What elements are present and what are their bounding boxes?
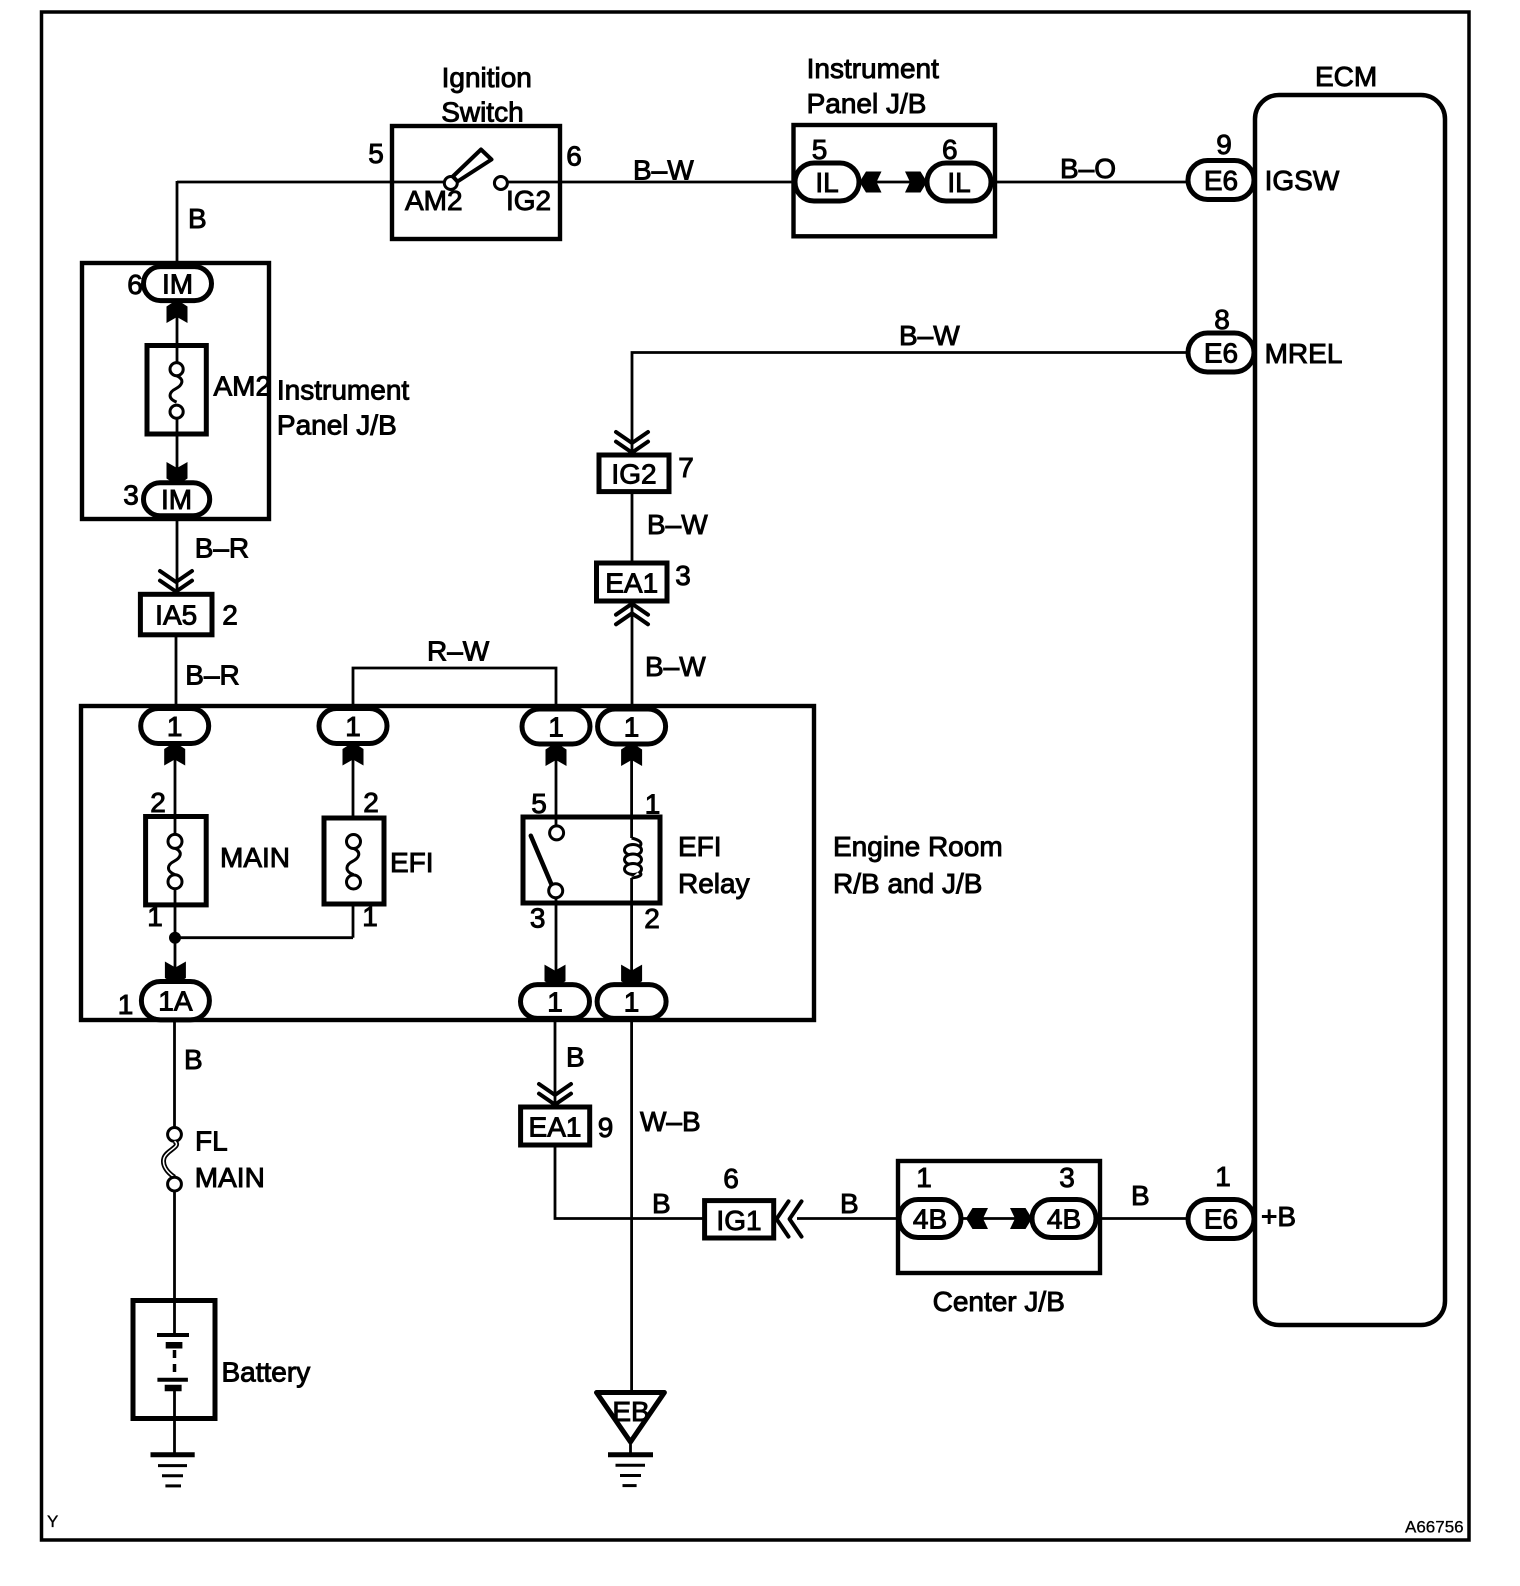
- arrow male IL left: [860, 172, 882, 193]
- ground battery: [151, 1455, 195, 1486]
- relay coil: [625, 838, 642, 878]
- svg-text:B: B: [652, 1188, 671, 1219]
- arrow male IL right: [905, 172, 927, 193]
- svg-text:6: 6: [942, 134, 958, 165]
- svg-text:1: 1: [147, 901, 163, 932]
- svg-text:B–W: B–W: [645, 651, 706, 682]
- battery plate long top: [157, 1333, 189, 1337]
- svg-text:1: 1: [362, 901, 378, 932]
- battery dashed link: [173, 1350, 177, 1376]
- svg-text:MREL: MREL: [1265, 338, 1343, 369]
- ground EB bars: [608, 1455, 653, 1486]
- chevrons into EA1 pin9: [539, 1084, 571, 1105]
- svg-text:Instrument: Instrument: [277, 374, 409, 405]
- svg-text:2: 2: [222, 600, 238, 631]
- label Ignition Switch: [441, 62, 532, 128]
- connector 4B pin1 oval: [899, 1200, 961, 1238]
- fuse MAIN box: [146, 817, 207, 905]
- oval 1 above relay pin5: [522, 709, 590, 744]
- label Instrument Panel J/B left: [277, 374, 409, 440]
- wire between 4B connectors: [961, 1217, 1032, 1220]
- ground EB triangle: [597, 1393, 665, 1442]
- bottom oval 1 right: [597, 985, 666, 1019]
- arrow male above bottom oval 1 left: [545, 965, 566, 987]
- relay contact bottom circle: [549, 884, 563, 898]
- svg-text:A66756: A66756: [1405, 1518, 1464, 1537]
- fuse AM2 element: [170, 376, 182, 402]
- svg-text:IM: IM: [162, 269, 193, 300]
- chevrons into IG1: [777, 1201, 802, 1236]
- svg-text:1: 1: [548, 712, 564, 743]
- ignition switch box: [392, 126, 560, 239]
- svg-text:9: 9: [598, 1112, 614, 1143]
- svg-text:IG2: IG2: [506, 185, 551, 216]
- connector IL pin6: [927, 163, 991, 201]
- fusible link FL MAIN top circle: [168, 1128, 182, 1142]
- svg-text:B: B: [188, 203, 207, 234]
- svg-text:5: 5: [531, 788, 547, 819]
- fuse AM2 top circle: [170, 363, 183, 376]
- fuse MAIN bottom circle: [168, 875, 182, 889]
- arrow male below oval MAIN: [164, 744, 185, 766]
- svg-text:EB: EB: [612, 1396, 649, 1427]
- svg-text:R/B and J/B: R/B and J/B: [833, 868, 982, 899]
- wire relay pin5 oval to contact: [555, 743, 558, 826]
- svg-text:MAIN: MAIN: [195, 1162, 265, 1193]
- svg-text:B: B: [840, 1188, 859, 1219]
- arrow male 4B left: [966, 1208, 988, 1229]
- svg-text:2: 2: [363, 787, 379, 818]
- connector 1A oval: [141, 982, 209, 1020]
- svg-text:6: 6: [723, 1163, 739, 1194]
- fuse EFI box: [324, 818, 384, 904]
- svg-text:1A: 1A: [158, 986, 193, 1017]
- connector box IA5: [140, 594, 212, 635]
- wire R-W EFI fuse oval to relay pin5 oval: [353, 668, 556, 710]
- wire B relay oval to EA1 9: [554, 1019, 557, 1108]
- svg-text:1: 1: [624, 712, 640, 743]
- svg-text:Y: Y: [47, 1512, 58, 1531]
- wire B-O IL to E6 IGSW: [990, 181, 1189, 184]
- svg-text:B–W: B–W: [633, 155, 694, 186]
- label EFI Relay: [678, 831, 750, 899]
- connector 4B pin3 oval: [1032, 1200, 1096, 1238]
- fuse EFI top circle: [347, 835, 361, 849]
- fuse AM2 box: [147, 346, 206, 435]
- svg-text:Panel J/B: Panel J/B: [277, 409, 397, 440]
- wire B from corner to ignition switch: [177, 181, 393, 184]
- wire relay pin2 coil to bottom oval: [630, 878, 633, 985]
- ignition switch lever: [453, 150, 492, 182]
- svg-text:1: 1: [547, 987, 563, 1018]
- wire junction to EFI fuse bottom: [175, 936, 353, 939]
- connector box IG2: [599, 455, 669, 492]
- wire B-R IM3 to IA5: [176, 516, 179, 595]
- svg-text:1: 1: [624, 987, 640, 1018]
- connector box IG1: [705, 1201, 774, 1238]
- svg-text:Engine Room: Engine Room: [833, 831, 1003, 862]
- label Engine Room R/B and J/B: [833, 831, 1003, 899]
- instrument panel J/B box left: [82, 263, 269, 519]
- svg-text:EA1: EA1: [529, 1112, 582, 1143]
- svg-text:B: B: [184, 1044, 203, 1075]
- svg-text:Relay: Relay: [678, 868, 750, 899]
- svg-text:3: 3: [530, 903, 546, 934]
- svg-text:+B: +B: [1261, 1201, 1296, 1232]
- svg-text:IG1: IG1: [716, 1205, 761, 1236]
- svg-text:2: 2: [150, 787, 166, 818]
- svg-text:B–R: B–R: [195, 532, 249, 563]
- battery box: [133, 1301, 215, 1419]
- svg-text:Center J/B: Center J/B: [933, 1286, 1065, 1317]
- svg-text:B–O: B–O: [1060, 153, 1116, 184]
- svg-text:1: 1: [916, 1162, 932, 1193]
- ECM box: [1255, 95, 1445, 1325]
- connector E6 IGSW oval: [1188, 161, 1254, 200]
- svg-text:B–W: B–W: [647, 509, 708, 540]
- connector IL pin5: [795, 163, 859, 201]
- svg-text:1: 1: [167, 711, 183, 742]
- svg-text:FL: FL: [195, 1126, 228, 1157]
- ignition switch contact IG2: [494, 177, 507, 190]
- svg-text:Instrument: Instrument: [807, 53, 939, 84]
- svg-text:IL: IL: [947, 167, 970, 198]
- chevrons into EA1 pin3: [616, 604, 648, 625]
- svg-text:9: 9: [1216, 129, 1232, 160]
- wire EFI oval to EFI fuse: [352, 743, 355, 819]
- arrow male below oval relay1: [621, 744, 642, 766]
- engine room R/B and J/B box: [81, 706, 814, 1020]
- svg-text:Ignition: Ignition: [442, 62, 532, 93]
- wire B vertical to IM6: [176, 181, 179, 267]
- svg-text:5: 5: [812, 134, 828, 165]
- connector E6 +B oval: [1188, 1200, 1254, 1239]
- wire B-R IA5 to engine room JB: [175, 635, 178, 710]
- svg-text:AM2: AM2: [405, 185, 463, 216]
- wire B-W EA1 to relay coil oval: [631, 601, 634, 710]
- wire B-W MREL to IG2 connector: [632, 353, 1189, 456]
- junction dot MAIN-EFI: [169, 932, 181, 944]
- svg-text:B–W: B–W: [899, 320, 960, 351]
- wire battery plate feed: [173, 1301, 176, 1335]
- oval 1 above EFI: [319, 709, 387, 744]
- instrument panel J/B box top: [794, 125, 996, 236]
- fuse MAIN element: [168, 848, 180, 874]
- svg-text:4B: 4B: [1047, 1204, 1081, 1235]
- chevrons into IG2 connector: [616, 432, 648, 453]
- svg-text:3: 3: [675, 560, 691, 591]
- svg-text:IL: IL: [815, 167, 838, 198]
- fuse MAIN top circle: [168, 834, 182, 848]
- wire switch internal left: [393, 181, 445, 184]
- bottom oval 1 left: [521, 985, 590, 1019]
- fuse EFI bottom circle: [347, 875, 361, 889]
- wire switch internal right: [507, 181, 560, 184]
- oval 1 above MAIN: [141, 709, 209, 744]
- battery plate long bottom: [157, 1378, 188, 1382]
- arrow male below oval relay5: [546, 744, 567, 766]
- svg-text:IA5: IA5: [155, 600, 197, 631]
- svg-text:Panel J/B: Panel J/B: [807, 88, 927, 119]
- svg-text:1: 1: [345, 711, 361, 742]
- wire MAIN fuse to 1A oval: [174, 888, 177, 985]
- fuse EFI element: [347, 848, 359, 874]
- wire B-W ignition switch to IL: [560, 181, 796, 184]
- relay contact blade: [531, 836, 552, 885]
- connector box EA1 pin3: [597, 563, 668, 601]
- svg-text:ECM: ECM: [1315, 61, 1377, 92]
- svg-text:EA1: EA1: [605, 568, 658, 599]
- svg-text:R–W: R–W: [427, 636, 490, 667]
- wire oval1 to MAIN fuse: [174, 743, 177, 835]
- svg-text:AM2: AM2: [214, 371, 272, 402]
- arrow male above bottom oval 1 right: [621, 965, 642, 987]
- svg-text:5: 5: [368, 138, 384, 169]
- svg-text:E6: E6: [1204, 338, 1238, 369]
- svg-text:8: 8: [1214, 304, 1230, 335]
- arrow male above IM3: [167, 462, 188, 484]
- battery plate short top: [166, 1342, 183, 1349]
- svg-text:6: 6: [127, 269, 143, 300]
- arrow male below IM6: [167, 301, 188, 323]
- center J/B box: [898, 1161, 1100, 1273]
- arrow male above 1A oval: [165, 962, 186, 984]
- wire between IL connectors: [858, 181, 928, 184]
- wire EFI fuse bottom drop: [352, 905, 355, 938]
- wire EB apex to ground bar: [629, 1442, 632, 1455]
- wire FL MAIN to battery: [173, 1191, 176, 1301]
- svg-text:B: B: [566, 1042, 585, 1073]
- connector IM pin3 oval: [144, 483, 210, 516]
- svg-text:3: 3: [123, 479, 139, 510]
- label FL MAIN: [195, 1126, 265, 1193]
- chevrons into IA5: [160, 571, 192, 592]
- svg-text:4B: 4B: [913, 1204, 947, 1235]
- fuse AM2 bottom circle: [170, 405, 183, 418]
- wire W-B relay oval to EB ground: [630, 1019, 633, 1393]
- wire B IG1 to center JB: [797, 1217, 900, 1220]
- wire relay pin3 to bottom oval: [555, 898, 558, 985]
- wire fuse AM2 to IM3: [176, 418, 179, 483]
- svg-text:6: 6: [566, 141, 582, 172]
- svg-text:IGSW: IGSW: [1265, 165, 1340, 196]
- fusible link FL MAIN bottom circle: [168, 1177, 182, 1191]
- wire IM6 to fuse AM2: [176, 300, 179, 363]
- ignition switch contact AM2: [444, 177, 457, 190]
- arrow male below oval EFI: [343, 744, 364, 766]
- wire relay pin1 oval to coil: [630, 743, 633, 838]
- fusible link FL MAIN element: [163, 1141, 176, 1177]
- connector IM pin6 oval: [144, 267, 212, 301]
- svg-text:B: B: [1131, 1180, 1150, 1211]
- wire B 1A oval to FL MAIN: [173, 1019, 176, 1128]
- relay contact top circle: [550, 826, 564, 840]
- svg-text:E6: E6: [1204, 165, 1238, 196]
- svg-text:IG2: IG2: [611, 459, 656, 490]
- svg-text:EFI: EFI: [390, 847, 434, 878]
- svg-text:Battery: Battery: [222, 1357, 311, 1388]
- svg-text:7: 7: [678, 452, 694, 483]
- battery plate short bottom: [165, 1385, 182, 1392]
- label Instrument Panel J/B top: [807, 53, 939, 119]
- wire B 4B to E6 +B: [1096, 1217, 1189, 1220]
- svg-text:3: 3: [1059, 1162, 1075, 1193]
- wire B-W IG2 to EA1: [631, 492, 634, 563]
- svg-text:2: 2: [644, 903, 660, 934]
- wire battery to ground: [173, 1390, 176, 1455]
- svg-text:W–B: W–B: [640, 1106, 701, 1137]
- svg-text:B–R: B–R: [185, 660, 239, 691]
- svg-text:E6: E6: [1204, 1204, 1238, 1235]
- connector box EA1 pin9: [521, 1107, 590, 1145]
- EFI relay box: [523, 817, 660, 903]
- connector E6 MREL oval: [1188, 333, 1254, 372]
- svg-text:1: 1: [645, 789, 661, 820]
- svg-text:EFI: EFI: [678, 831, 722, 862]
- svg-text:IM: IM: [161, 484, 192, 515]
- wire B EA1 to IG1: [555, 1145, 705, 1219]
- svg-text:Switch: Switch: [441, 96, 523, 127]
- svg-text:MAIN: MAIN: [220, 842, 290, 873]
- oval 1 above relay pin1: [598, 709, 666, 744]
- svg-text:1: 1: [118, 989, 134, 1020]
- svg-text:1: 1: [1215, 1161, 1231, 1192]
- arrow male 4B right: [1010, 1208, 1032, 1229]
